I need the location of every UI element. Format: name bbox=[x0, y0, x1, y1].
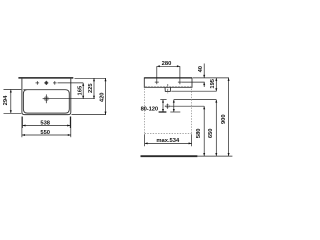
svg-text:max.534: max.534 bbox=[156, 138, 180, 144]
dim 195 bbox=[215, 78, 217, 91]
tap hole plus right bbox=[53, 81, 57, 85]
ext line crosshair to 580 bbox=[171, 105, 205, 107]
svg-text:580: 580 bbox=[196, 128, 202, 138]
floor line thin bbox=[197, 155, 232, 157]
floor line thick bbox=[141, 155, 198, 157]
svg-text:900: 900 bbox=[221, 114, 227, 124]
dim 165 bbox=[82, 83, 84, 99]
dim 225 bbox=[93, 78, 95, 98]
top edge right extension bbox=[193, 77, 229, 79]
tap hole plus right (front) bbox=[178, 81, 182, 83]
svg-text:420: 420 bbox=[100, 92, 106, 102]
text labels bbox=[3, 61, 227, 144]
drain symbol bbox=[43, 94, 50, 103]
dim 550 bbox=[22, 134, 71, 136]
svg-text:80-120: 80-120 bbox=[141, 106, 158, 112]
svg-text:550: 550 bbox=[40, 130, 50, 136]
drain outlet box bbox=[165, 87, 171, 91]
drain centre extension line bbox=[50, 98, 95, 100]
dim 538 bbox=[23, 125, 71, 127]
inner bowl outline bbox=[23, 90, 69, 113]
svg-text:294: 294 bbox=[3, 95, 9, 105]
wall / back edge thick line bbox=[18, 77, 73, 79]
tap hole center symbol bbox=[44, 81, 48, 85]
dim 420 bbox=[105, 78, 107, 114]
front edge right extension bbox=[72, 114, 107, 116]
centre dash-dot line bbox=[167, 84, 169, 94]
dim 280 bbox=[157, 66, 180, 84]
tap line right extension bbox=[182, 81, 205, 83]
svg-text:538: 538 bbox=[40, 120, 50, 126]
hidden bowl bottom dashed bbox=[145, 85, 191, 87]
svg-text:280: 280 bbox=[162, 61, 172, 67]
water connection crosshair bbox=[165, 104, 171, 109]
svg-text:650: 650 bbox=[208, 128, 214, 138]
dim max.534 bbox=[145, 142, 192, 144]
outer basin outline (rounded rect) bbox=[22, 78, 71, 115]
dim 580 bbox=[203, 106, 205, 156]
svg-text:40: 40 bbox=[198, 66, 204, 72]
80-120 dim right line bbox=[173, 100, 175, 112]
ext line to 650 bbox=[174, 99, 217, 101]
back edge right extension bbox=[75, 77, 107, 79]
basin front rectangle bbox=[144, 78, 192, 87]
dim 40 bbox=[203, 64, 205, 88]
dim 294 left bbox=[4, 90, 22, 114]
dashed cabinet outline bbox=[145, 89, 192, 134]
tap centre extension line bbox=[58, 82, 84, 84]
drain bottom extension to 195 bbox=[171, 90, 216, 92]
tap hole plus left bbox=[36, 81, 40, 85]
max.534 extension verticals bbox=[145, 134, 192, 146]
svg-text:195: 195 bbox=[210, 78, 216, 88]
svg-text:165: 165 bbox=[78, 85, 84, 95]
tap hole plus left (front) bbox=[155, 81, 159, 83]
svg-text:225: 225 bbox=[88, 83, 94, 93]
bottom dims extension verticals bbox=[22, 117, 71, 138]
dim 650 bbox=[215, 100, 217, 156]
dim 900 bbox=[228, 78, 230, 156]
80-120 dim left line bbox=[159, 100, 167, 112]
